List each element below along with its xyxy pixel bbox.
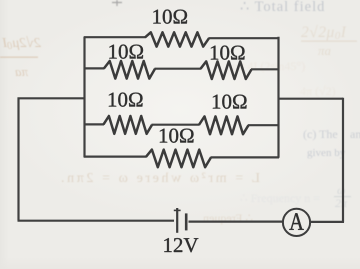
svg-text:∴ Frequen: ∴ Frequen xyxy=(203,211,253,225)
battery B1 short plate (-) xyxy=(185,213,188,230)
wire: top branch left segment xyxy=(84,36,146,38)
wire: right connector xyxy=(279,98,344,100)
resistor R-bottom zigzag xyxy=(146,150,211,168)
label 10ohm row2 right xyxy=(211,46,245,60)
resistor R-top zigzag xyxy=(145,32,209,46)
bleed math fraction right: 2root2 mu0 I over pi a xyxy=(301,24,357,58)
svg-text:(c) The: (c) The xyxy=(303,127,338,141)
label 10ohm top xyxy=(153,10,187,24)
wire: row3 middle segment xyxy=(152,124,200,126)
battery plus tick xyxy=(174,209,181,211)
wire: inner box right vertical xyxy=(277,37,279,158)
svg-text:2√2μ0I: 2√2μ0I xyxy=(1,36,41,52)
resistor R2-left zigzag xyxy=(104,61,155,79)
svg-text:∴ Frequency n =: ∴ Frequency n = xyxy=(240,191,320,205)
wire: row3 right stub xyxy=(248,124,279,126)
wire: outer right vertical xyxy=(342,98,344,223)
svg-text:given by: given by xyxy=(307,147,346,159)
wire: bottom main left xyxy=(18,220,175,222)
wire: inner box left vertical xyxy=(83,37,85,158)
wire: bottom between ammeter and right xyxy=(310,221,344,223)
svg-text:πa: πa xyxy=(318,43,332,58)
svg-text:2√2μ0I: 2√2μ0I xyxy=(301,24,347,42)
resistor R3-right zigzag xyxy=(199,116,249,134)
wire: left connector to inner box xyxy=(18,97,85,99)
wire: bottom branch right segment xyxy=(211,156,280,158)
svg-text:an: an xyxy=(350,127,360,141)
label 12V battery xyxy=(164,238,198,252)
svg-text:2π: 2π xyxy=(335,196,348,210)
label 10ohm row3 right xyxy=(213,95,247,109)
svg-text:∴ Total field: ∴ Total field xyxy=(240,0,325,15)
ammeter M1 circle xyxy=(283,209,310,236)
battery B1 long plate (+) xyxy=(176,208,178,233)
stray mark: tiny plus at top edge xyxy=(112,0,122,6)
wire: row3 left stub xyxy=(84,123,104,125)
resistor R2-right zigzag xyxy=(201,61,252,79)
wire: row2 right stub xyxy=(251,68,279,70)
resistor R3-left zigzag xyxy=(104,116,153,134)
svg-text:ω: ω xyxy=(337,183,345,197)
wire: top branch right segment xyxy=(209,37,280,39)
svg-text:L = mr²ω where ω = 2πn.: L = mr²ω where ω = 2πn. xyxy=(58,171,260,186)
svg-text:πa: πa xyxy=(14,64,28,79)
svg-text:4π (√2): 4π (√2) xyxy=(300,84,336,98)
wire: row2 middle segment xyxy=(155,68,202,70)
bleed math fraction left (mirrored) xyxy=(0,36,41,79)
label 10ohm bottom xyxy=(160,129,194,143)
wire: outer left vertical xyxy=(17,98,19,221)
wire: row2 left stub xyxy=(84,67,105,69)
wire: bottom branch left segment xyxy=(84,156,147,158)
label 10ohm row3 left xyxy=(109,93,143,107)
ammeter letter A xyxy=(289,213,303,230)
label 10ohm row2 left xyxy=(109,45,143,59)
wire: bottom between battery and ammeter xyxy=(189,221,284,223)
